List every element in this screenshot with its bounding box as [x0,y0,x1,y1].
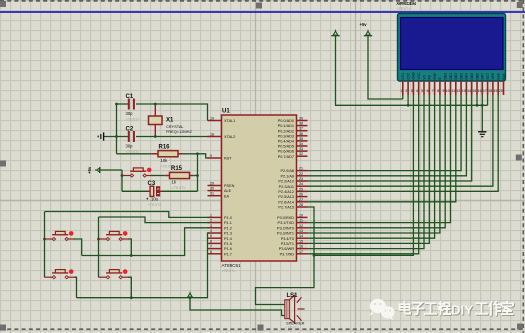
svg-text:P0.2/AD2: P0.2/AD2 [278,129,294,133]
push button S3 [44,269,75,279]
svg-text:2: 2 [405,89,407,93]
svg-text:28: 28 [299,203,303,207]
svg-text:+5v: +5v [87,166,92,174]
svg-text:V0: V0 [422,75,426,79]
svg-text:P2.4/A12: P2.4/A12 [278,190,294,194]
svg-text:SPEAKER: SPEAKER [286,321,305,326]
svg-text:P1.6: P1.6 [224,247,232,251]
svg-text:33: 33 [299,147,303,151]
svg-text:18: 18 [488,89,492,93]
svg-text:RST: RST [224,157,232,161]
svg-text:DIY: DIY [451,303,473,318]
svg-text:DB1: DB1 [449,73,453,80]
push button reset [122,168,153,178]
wire button to R15 [151,175,165,177]
svg-text:32: 32 [299,152,303,156]
svg-text:25: 25 [299,187,303,191]
svg-text:37: 37 [299,127,303,131]
svg-text:CS1: CS1 [401,73,405,80]
wire R15 to branch [193,175,197,177]
svg-text:30p: 30p [126,144,134,149]
svg-text:10k: 10k [161,158,169,163]
svg-text:8: 8 [210,250,212,254]
watermark text [400,302,514,319]
watermark wechat logo [369,299,394,321]
svg-text:5: 5 [421,89,423,93]
svg-text:P1.2: P1.2 [224,226,232,230]
svg-text:P3.4/T0: P3.4/T0 [281,237,294,241]
svg-text:35: 35 [299,137,303,141]
svg-text:R15: R15 [171,166,183,172]
svg-text:PSEN: PSEN [224,184,235,188]
svg-text:21: 21 [299,167,303,171]
svg-text:P1.3: P1.3 [224,232,232,236]
svg-text:6: 6 [210,239,212,243]
svg-text:9: 9 [443,89,445,93]
wire P1.1 net [99,217,210,223]
svg-text:P3.2/INT0: P3.2/INT0 [277,226,294,230]
wire S4 right down [128,277,131,298]
wire button col2 vertical [97,217,100,277]
svg-text:P2.6/A14: P2.6/A14 [278,200,294,204]
svg-text:P1.0: P1.0 [224,216,232,220]
power arrow +5V left [331,30,339,36]
svg-text:R/W: R/W [433,72,437,79]
svg-text:6: 6 [427,89,429,93]
svg-text:U1: U1 [222,109,230,115]
svg-text:P0.0/AD0: P0.0/AD0 [278,119,294,123]
svg-text:10u: 10u [151,197,159,202]
svg-text:16: 16 [299,245,303,249]
wire arrow1 ground bus [336,35,488,131]
power arrow bottom [188,292,193,298]
ground left of C2 [98,132,103,140]
svg-text:P3.6/WR: P3.6/WR [279,247,294,251]
microcontroller U1 AT89C51 [208,109,308,274]
wire P2.7 to speaker [256,207,316,305]
svg-text:4: 4 [210,229,212,233]
svg-text:GND: GND [412,72,416,80]
svg-text:BLA: BLA [497,72,501,79]
svg-text:AT89C51: AT89C51 [222,263,242,268]
svg-text:14: 14 [299,234,303,238]
svg-text:VEE: VEE [491,72,495,79]
wire P3 to LCD bus [308,95,451,254]
svg-text:17: 17 [483,89,487,93]
svg-text:DB6: DB6 [475,73,479,80]
svg-text:31: 31 [210,192,214,196]
svg-text:CS2: CS2 [406,73,410,80]
svg-text:3: 3 [411,89,413,93]
svg-text:24: 24 [299,182,303,186]
LCD pins [400,72,506,95]
capacitor C1 [126,94,141,122]
svg-text:8: 8 [437,89,439,93]
svg-text:P1.7: P1.7 [224,252,232,256]
wire row to P1.2 [82,228,209,257]
svg-text:1: 1 [400,89,402,93]
ground under LCD [478,132,486,137]
svg-text:DB5: DB5 [470,73,474,80]
svg-text:10: 10 [299,213,303,217]
wire P1.0 net [45,212,210,218]
wire S3 right down [74,277,77,298]
svg-text:C2: C2 [126,127,134,133]
svg-text:30: 30 [210,187,214,191]
svg-text:C3: C3 [148,181,156,187]
svg-text:P3.5/T1: P3.5/T1 [281,242,294,246]
svg-text:P0.4/AD4: P0.4/AD4 [278,140,294,144]
svg-text:RS: RS [428,74,432,79]
svg-text:P2.5/A13: P2.5/A13 [278,195,294,199]
svg-text:7: 7 [210,245,212,249]
svg-text:P3.3/INT1: P3.3/INT1 [277,232,294,236]
power arrow +5V right [360,22,373,36]
svg-text:DB4: DB4 [465,73,469,80]
svg-text:39: 39 [299,117,303,121]
svg-text:5: 5 [210,234,212,238]
wire R16 left [117,153,152,155]
wire button col1 vertical [43,212,46,278]
svg-text:38: 38 [299,122,303,126]
resistor R15 [165,166,193,190]
wire LCD pin3 down [314,95,413,255]
svg-text:<TEXT>: <TEXT> [172,186,187,190]
wire C2 net [104,136,209,138]
svg-text:P2.2/A10: P2.2/A10 [278,180,294,184]
svg-text:P3.7/RD: P3.7/RD [280,252,295,256]
svg-text:18: 18 [210,133,214,137]
svg-text:36: 36 [299,132,303,136]
svg-text:P2.0/A8: P2.0/A8 [280,169,294,173]
svg-text:13: 13 [462,89,466,93]
svg-text:ALE: ALE [224,189,232,193]
wire S1 right to row [74,239,82,256]
wire RST branch vertical [196,154,199,192]
svg-text:16: 16 [478,89,482,93]
svg-text:P0.6/AD6: P0.6/AD6 [278,150,294,154]
wire R16 to RST [183,152,210,158]
wire S2 right to row [128,239,131,256]
svg-text:P1.4: P1.4 [224,237,232,241]
svg-text:19: 19 [210,117,214,121]
svg-text:P1.1: P1.1 [224,221,232,225]
svg-text:15: 15 [299,239,303,243]
svg-text:7: 7 [432,89,434,93]
svg-text:23: 23 [299,177,303,181]
svg-text:12: 12 [457,89,461,93]
svg-text:C1: C1 [126,94,134,100]
svg-text:11: 11 [451,89,455,93]
svg-text:19: 19 [494,89,498,93]
capacitor C3 electrolytic [146,181,163,207]
svg-text:P2.7/A15: P2.7/A15 [278,206,294,210]
svg-text:30p: 30p [126,111,134,116]
svg-text:20: 20 [499,89,503,93]
svg-text:<TEXT>: <TEXT> [148,203,163,207]
svg-text:15: 15 [472,89,476,93]
svg-text:LS1: LS1 [287,293,299,299]
wire gnd-C left vertical [115,103,118,154]
svg-text:DB3: DB3 [459,73,463,80]
svg-text:34: 34 [299,142,303,146]
svg-text:+5v: +5v [360,22,368,27]
blue line [0,11,525,13]
LCD LCD1 AMPIRE128X64 [397,1,506,81]
svg-text:27: 27 [299,198,303,202]
speaker LS1 [284,293,305,330]
svg-text:VCC: VCC [417,72,421,80]
svg-text:P3.0/RXD: P3.0/RXD [277,216,294,220]
svg-text:P3.1/TXD: P3.1/TXD [278,221,295,225]
svg-text:1: 1 [210,213,212,217]
svg-text:2: 2 [210,219,212,223]
wire speaker bottom net [190,298,284,316]
svg-text:<TEXT>: <TEXT> [397,7,411,11]
svg-text:P0.3/AD3: P0.3/AD3 [278,134,294,138]
wire reset power net [100,170,123,191]
svg-text:12: 12 [299,224,303,228]
svg-text:R16: R16 [159,145,171,151]
svg-text:RST: RST [486,73,490,80]
svg-text:+: + [146,197,149,202]
svg-text:3: 3 [210,224,212,228]
wire bottom row to P1.3 [77,233,210,299]
wire P2 to LCD bus [308,95,499,202]
svg-text:4: 4 [416,89,418,93]
wire C3 row [122,190,198,192]
svg-text:29: 29 [210,182,214,186]
svg-text:9: 9 [210,154,212,158]
push button S1 [44,231,75,241]
svg-text:P2.1/A9: P2.1/A9 [280,174,294,178]
svg-text:DB2: DB2 [454,73,458,80]
svg-text:22: 22 [299,172,303,176]
svg-text:17: 17 [299,250,303,254]
svg-text:10: 10 [446,89,450,93]
svg-text:11: 11 [299,219,303,223]
crystal X1 [149,103,193,138]
svg-text:XTAL1: XTAL1 [224,119,235,123]
svg-text:<TEXT>: <TEXT> [222,269,237,273]
push button S2 [98,231,129,241]
wire arrow2 to LCD pin1 [368,35,403,99]
svg-text:P0.1/AD1: P0.1/AD1 [278,124,294,128]
svg-text:<TEXT>: <TEXT> [126,118,141,122]
svg-text:P0.5/AD5: P0.5/AD5 [278,145,294,149]
svg-text:26: 26 [299,193,303,197]
svg-text:13: 13 [299,229,303,233]
resistor R16 [151,145,182,169]
svg-text:XTAL2: XTAL2 [224,135,235,139]
svg-text:P0.7/AD7: P0.7/AD7 [278,155,294,159]
svg-text:P1.5: P1.5 [224,242,232,246]
svg-text:BLK: BLK [502,72,506,79]
svg-text:X1: X1 [166,118,174,124]
power arrow reset +5V [87,166,100,174]
svg-text:14: 14 [467,89,471,93]
svg-text:DB0: DB0 [444,73,448,80]
svg-text:DB7: DB7 [481,73,485,80]
svg-text:FREQ=12MHZ: FREQ=12MHZ [166,129,192,134]
svg-text:EA: EA [224,194,230,198]
capacitor C2 [126,127,141,155]
wire C1 net [117,104,208,121]
svg-text:P2.3/A11: P2.3/A11 [279,185,294,189]
push button S4 [98,269,129,279]
